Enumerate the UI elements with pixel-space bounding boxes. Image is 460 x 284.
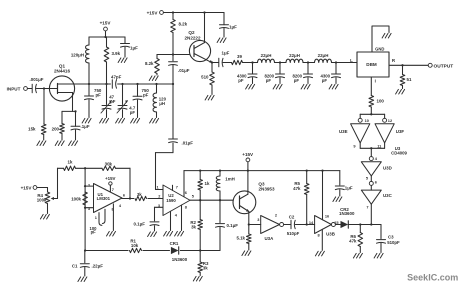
svg-text:μH: μH [159, 101, 165, 106]
svg-text:.01μF: .01μF [182, 140, 194, 145]
svg-text:pF: pF [143, 93, 149, 98]
svg-text:200: 200 [52, 126, 60, 131]
svg-text:U3C: U3C [383, 193, 393, 198]
svg-text:I: I [375, 78, 376, 83]
svg-text:DBM: DBM [366, 62, 377, 67]
svg-text:CD4009: CD4009 [391, 150, 407, 155]
svg-text:2N3953: 2N3953 [258, 186, 275, 191]
svg-text:1mH: 1mH [225, 176, 235, 181]
svg-text:51: 51 [407, 77, 412, 82]
svg-text:120μH: 120μH [71, 53, 84, 58]
svg-text:pF: pF [110, 99, 116, 104]
svg-text:1590: 1590 [166, 198, 176, 203]
svg-text:7: 7 [112, 187, 114, 192]
svg-text:22μH: 22μH [318, 53, 329, 58]
svg-text:.22μF: .22μF [92, 264, 104, 269]
svg-text:8.2k: 8.2k [179, 22, 188, 27]
svg-text:22μH: 22μH [289, 53, 300, 58]
svg-text:+15V: +15V [147, 10, 159, 15]
svg-text:.1μF: .1μF [81, 124, 90, 129]
svg-text:47k: 47k [349, 239, 357, 244]
svg-text:1μF: 1μF [130, 46, 138, 51]
svg-text:pF: pF [130, 110, 136, 115]
svg-text:10: 10 [365, 118, 369, 123]
svg-text:L: L [350, 58, 353, 63]
svg-text:510pF: 510pF [387, 240, 400, 245]
svg-text:SeekIC.com: SeekIC.com [407, 272, 458, 282]
svg-text:15k: 15k [28, 127, 36, 132]
svg-text:C1: C1 [72, 263, 78, 268]
svg-text:1μF: 1μF [222, 51, 230, 56]
svg-text:22μH: 22μH [261, 53, 272, 58]
svg-text:2N2222: 2N2222 [184, 35, 201, 40]
svg-text:INPUT: INPUT [7, 86, 21, 91]
svg-text:8.2k: 8.2k [145, 61, 154, 66]
svg-text:+15V: +15V [100, 21, 112, 26]
svg-text:3k: 3k [191, 225, 196, 230]
svg-text:C2: C2 [289, 215, 295, 220]
svg-text:47pF: 47pF [111, 74, 122, 79]
svg-text:0.1μF: 0.1μF [227, 223, 239, 228]
svg-text:.001μF: .001μF [30, 77, 44, 82]
svg-text:U3D: U3D [383, 165, 392, 170]
svg-text:CR1: CR1 [170, 241, 179, 246]
svg-text:7: 7 [366, 204, 368, 209]
svg-text:1μF: 1μF [229, 25, 237, 30]
svg-text:3k: 3k [203, 266, 208, 271]
svg-text:10k: 10k [131, 243, 139, 248]
svg-text:U3B: U3B [326, 232, 335, 237]
svg-text:U3A: U3A [265, 236, 275, 241]
svg-text:5.1k: 5.1k [236, 235, 245, 240]
svg-text:+15V: +15V [242, 152, 254, 157]
svg-text:pF: pF [266, 78, 272, 83]
svg-text:pF: pF [238, 78, 244, 83]
svg-text:510: 510 [201, 74, 209, 79]
svg-text:1k: 1k [68, 159, 73, 164]
svg-text:510pF: 510pF [287, 231, 300, 236]
svg-text:U3E: U3E [339, 129, 348, 134]
svg-text:OUTPUT: OUTPUT [434, 63, 454, 69]
svg-text:3k: 3k [137, 192, 142, 197]
svg-text:1k: 1k [205, 181, 210, 186]
svg-text:3.9k: 3.9k [112, 51, 121, 56]
svg-text:.01μF: .01μF [178, 68, 190, 73]
svg-text:100k: 100k [37, 197, 47, 202]
svg-text:47k: 47k [293, 186, 301, 191]
svg-text:pF: pF [294, 78, 300, 83]
svg-text:1N3600: 1N3600 [172, 257, 188, 262]
svg-text:1N3600: 1N3600 [339, 211, 355, 216]
svg-text:0.1μF: 0.1μF [134, 222, 146, 227]
svg-text:pF: pF [96, 93, 102, 98]
svg-text:39: 39 [237, 54, 242, 59]
svg-text:30k: 30k [105, 162, 113, 167]
svg-text:100k: 100k [71, 197, 81, 202]
svg-text:LM301: LM301 [97, 196, 111, 201]
svg-text:pF: pF [322, 78, 328, 83]
svg-text:1μF: 1μF [345, 186, 353, 191]
svg-text:+15V: +15V [21, 185, 33, 190]
svg-text:U3F: U3F [396, 129, 405, 134]
svg-text:GND: GND [375, 46, 384, 51]
svg-text:+15V: +15V [105, 176, 115, 181]
svg-text:pF: pF [91, 230, 97, 235]
svg-text:7: 7 [176, 184, 178, 189]
svg-text:100: 100 [377, 99, 385, 104]
svg-text:2N4416: 2N4416 [54, 69, 71, 74]
